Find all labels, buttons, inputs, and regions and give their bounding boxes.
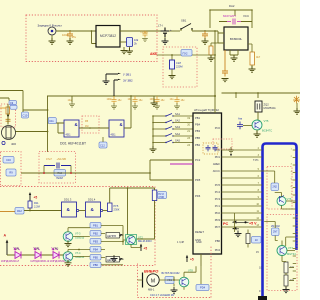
net arrow box TSEPRV2 <box>106 257 120 263</box>
mosfet label in box B <box>272 228 280 236</box>
corner connector block <box>258 296 267 300</box>
ground under R3 <box>249 66 256 72</box>
IR receiver dashed box A <box>267 167 292 210</box>
svg-text:C16: C16 <box>6 158 11 162</box>
switch SA4 <box>152 135 154 137</box>
svg-text:A: A <box>4 234 7 238</box>
svg-text:PC3: PC3 <box>215 197 221 201</box>
svg-text:PB1: PB1 <box>93 223 98 227</box>
capacitor C16 label <box>3 157 14 164</box>
reset pull circuit <box>234 213 236 232</box>
wire battery to switch <box>169 30 180 32</box>
second arrow <box>233 228 240 231</box>
svg-text:SA3: SA3 <box>175 125 180 129</box>
svg-text:VT7: VT7 <box>288 246 293 250</box>
svg-text:SB1: SB1 <box>181 19 187 23</box>
svg-text:C10: C10 <box>23 113 28 117</box>
svg-text:У ЗВ1: У ЗВ1 <box>123 73 131 77</box>
transistor VT6 <box>277 197 286 206</box>
capacitor C15 <box>213 145 218 151</box>
svg-text:+5: +5 <box>34 195 38 199</box>
+5 net arrow <box>29 195 31 202</box>
svg-text:+5 V: +5 V <box>249 222 257 226</box>
svg-text:ЦЕПРВ: ЦЕПРВ <box>107 234 116 238</box>
svg-text:4k7: 4k7 <box>256 55 261 59</box>
svg-text:47u7: 47u7 <box>46 157 52 161</box>
wire switch to VCC node <box>192 30 218 32</box>
left filter dashed box <box>1 152 22 186</box>
ground under jack <box>49 38 56 44</box>
svg-text:DA2: DA2 <box>229 4 235 8</box>
IC DA2 module box <box>224 27 248 50</box>
svg-text:PD1: PD1 <box>215 155 221 159</box>
svg-text:PD4: PD4 <box>215 248 221 252</box>
LED HL3 <box>53 252 59 259</box>
capacitor C14 <box>206 145 211 151</box>
svg-text:2,2M: 2,2M <box>34 205 40 209</box>
ground under VT3 <box>67 241 69 242</box>
transistor VT3 <box>63 232 73 242</box>
svg-text:PB0: PB0 <box>93 263 98 267</box>
capacitor C10 coupling <box>22 112 29 118</box>
capacitor C9 label <box>9 101 17 105</box>
svg-text:230К: 230К <box>114 208 120 212</box>
gate1 input wires <box>58 123 64 133</box>
LED HL2 <box>35 252 41 259</box>
svg-text:ПУ2: ПУ2 <box>183 51 189 55</box>
svg-text:DD1.4: DD1.4 <box>88 198 96 202</box>
wires from net labels to riser <box>101 226 123 265</box>
svg-text:&: & <box>120 122 123 127</box>
VT3 wires <box>68 228 90 237</box>
svg-text:PB5: PB5 <box>93 255 98 259</box>
resistor R13 above <box>152 190 157 201</box>
svg-text:VT-4: VT-4 <box>75 251 81 255</box>
ground right edge <box>296 103 298 110</box>
svg-text:T1T1: T1T1 <box>253 159 259 162</box>
svg-text:1 3,4Р: 1 3,4Р <box>177 241 185 244</box>
svg-text:РУ5: РУ5 <box>114 204 119 208</box>
wire between gates <box>77 209 79 211</box>
svg-text:PD6: PD6 <box>195 194 201 198</box>
ground under vibro <box>171 287 178 293</box>
svg-text:+NA NB: +NA NB <box>57 157 67 161</box>
svg-text:ГМ3: ГМ3 <box>54 247 59 250</box>
AREF filter dashed box <box>213 139 232 149</box>
connector right-side pin stubs <box>293 150 296 279</box>
capacitor C8 in mic box <box>6 117 11 124</box>
svg-text:BLT3/5 MU0162: BLT3/5 MU0162 <box>162 272 181 275</box>
rail left drop to mic network <box>47 96 49 152</box>
svg-text:DD1 HEF4011BT: DD1 HEF4011BT <box>60 142 86 146</box>
ground under battery <box>164 37 166 41</box>
svg-text:10u: 10u <box>128 98 133 101</box>
svg-text:SA4: SA4 <box>175 132 180 136</box>
box B wiring <box>264 222 296 262</box>
svg-text:PB5: PB5 <box>195 136 201 140</box>
capacitor C11 coupling <box>23 110 58 123</box>
switch SA1 <box>152 115 154 117</box>
svg-text:КИПД40М30: КИПД40М30 <box>50 259 66 263</box>
svg-text:PB1: PB1 <box>195 116 201 120</box>
net arrow V ZV1 <box>106 74 118 79</box>
svg-text:ГМ1: ГМ1 <box>15 247 20 250</box>
ground under R2 <box>208 55 215 61</box>
transistor VT2 <box>126 235 137 245</box>
net label PB5 <box>90 255 101 261</box>
+5 arrow at VT2 <box>140 245 142 251</box>
svg-text:1К: 1К <box>255 238 258 242</box>
microphone BM1 <box>2 126 16 140</box>
svg-text:VT5: VT5 <box>264 119 269 123</box>
svg-text:+5: +5 <box>190 258 194 262</box>
svg-text:SA2: SA2 <box>175 119 180 123</box>
svg-text:ГМ2: ГМ2 <box>35 247 40 250</box>
net label PB2 <box>90 231 101 237</box>
svg-text:SA5: SA5 <box>175 139 180 143</box>
capacitor C19 under DA2 <box>222 50 228 77</box>
svg-text:AVCC: AVCC <box>213 169 220 173</box>
resistor R8 <box>284 275 288 286</box>
svg-text:PB4: PB4 <box>93 247 98 251</box>
regulator U1 MCP73812 <box>96 26 120 48</box>
net label PB4 <box>90 247 101 253</box>
connector pin numbers right <box>291 148 293 203</box>
svg-text:C11: C11 <box>49 119 54 123</box>
ground above vibro box <box>113 255 115 257</box>
capacitor C2 at VCC <box>202 31 208 39</box>
svg-text:SS9015: SS9015 <box>75 255 85 259</box>
svg-text:MCP73812: MCP73812 <box>100 34 116 38</box>
svg-text:КИПД40М30-Л: КИПД40М30-Л <box>1 259 19 263</box>
transistor VT5 <box>257 112 259 120</box>
capacitor C20 in battery box <box>171 55 173 60</box>
svg-text:R11: R11 <box>34 201 39 205</box>
magenta AREF trace <box>170 163 193 165</box>
ground under VT4 <box>67 261 69 262</box>
flyback diode label <box>165 277 174 284</box>
svg-text:PB6: PB6 <box>215 239 221 243</box>
connector XS1 blue frame <box>263 144 297 298</box>
box A wires <box>262 171 297 209</box>
transistor Q1 prog pin device <box>120 41 128 43</box>
transistor VT7 <box>277 246 287 256</box>
svg-text:PC4: PC4 <box>215 190 221 194</box>
svg-text:BK8000L: BK8000L <box>230 37 243 41</box>
svg-text:PC0: PC0 <box>215 126 221 130</box>
mic input dashed box <box>1 104 16 127</box>
svg-text:R9: R9 <box>9 171 13 175</box>
ground drop above switch bus <box>153 96 155 103</box>
vibro wires <box>138 266 197 290</box>
driver dashed box B <box>267 215 297 291</box>
svg-text:+5: +5 <box>144 247 148 251</box>
svg-text:PB3: PB3 <box>195 129 201 133</box>
svg-text:PD2: PD2 <box>215 211 221 215</box>
wires R7 R8 <box>282 262 294 289</box>
svg-text:220М: 220М <box>176 65 183 69</box>
resistor R14 <box>108 203 113 212</box>
svg-text:4011: 4011 <box>66 134 72 137</box>
svg-text:C12: C12 <box>100 144 105 148</box>
svg-text:PB2: PB2 <box>93 231 98 235</box>
svg-text:PD3: PD3 <box>215 218 221 222</box>
wire gate DD1.4 output <box>101 209 103 211</box>
wires mic coupling <box>8 104 48 132</box>
RC dashed box <box>39 152 76 184</box>
ground under Q1 <box>129 47 131 52</box>
switch SA3 <box>152 128 154 130</box>
wire akb row <box>157 54 215 56</box>
svg-text:10k: 10k <box>134 38 139 42</box>
svg-text:MCP120T: MCP120T <box>223 14 236 18</box>
AVCC filter orange dashed box <box>203 143 218 154</box>
wire from left edge row2 <box>0 98 9 101</box>
transistor VT8 <box>179 277 189 287</box>
gate DD1.2 <box>109 120 124 137</box>
input net label R12 <box>0 211 15 213</box>
svg-text:7E3M: 7E3M <box>56 176 63 180</box>
main audio wire through <box>21 172 150 174</box>
net stub down to main rail <box>214 31 216 96</box>
svg-text:VT-3: VT-3 <box>75 232 81 236</box>
wire regulator output to battery <box>120 30 165 32</box>
charger section dashed enclosure <box>26 15 157 62</box>
svg-text:ВИБРО: ВИБРО <box>144 269 159 274</box>
svg-text:2N2: 2N2 <box>273 186 278 189</box>
switch SA5 <box>152 142 154 144</box>
wire VT2 to net labels riser <box>123 239 126 241</box>
ground near AVCC <box>228 147 234 153</box>
MCU bottom pin riser <box>200 254 202 266</box>
svg-text:С2Л: С2Л <box>176 61 181 65</box>
partition dashed line horizontal lower <box>0 265 155 267</box>
vibro dashed box <box>138 245 212 298</box>
ground under C1 <box>67 38 74 44</box>
switch bus vertical <box>152 116 154 149</box>
main supply rail <box>47 95 215 97</box>
svg-text:2N7002: 2N7002 <box>271 225 280 228</box>
resistor R2 left <box>209 46 213 55</box>
resistor R9 <box>6 169 16 176</box>
svg-text:R12: R12 <box>17 209 22 213</box>
feedback dashed box R5 region <box>82 116 99 133</box>
MCU left pin wires row2 <box>150 160 193 173</box>
MCU right pin wires to bus <box>222 149 263 151</box>
MCU vcc top pin <box>214 96 216 113</box>
svg-text:С10 4,7 х16ШАФ МУ: С10 4,7 х16ШАФ МУ <box>150 293 175 297</box>
svg-text:ЗУ ЗВ2: ЗУ ЗВ2 <box>123 79 133 83</box>
wire to gate DD1.3 <box>24 210 62 212</box>
orange input stub <box>0 107 6 109</box>
svg-text:КИПД40М30-Ж: КИПД40М30-Ж <box>31 259 50 263</box>
resistor R6 label in box A <box>271 183 279 191</box>
resonator ZQ2 <box>255 101 262 112</box>
loop wires <box>44 166 71 174</box>
antenna star <box>293 96 300 103</box>
svg-text:&: & <box>75 122 78 127</box>
PC net arrows <box>233 221 246 224</box>
svg-text:LT-I: LT-I <box>158 24 163 28</box>
svg-text:PB4: PB4 <box>195 123 201 127</box>
ground at regulator pin <box>123 47 125 51</box>
net label PB1 <box>90 223 101 229</box>
resistor R4 in mic box <box>6 107 10 114</box>
svg-text:МЕ-М-3003: МЕ-М-3003 <box>138 239 152 243</box>
svg-text:470R: 470R <box>158 196 164 199</box>
transistor VT4 <box>63 252 73 262</box>
gate DD1.1 <box>64 120 79 137</box>
svg-text:PC1: PC1 <box>215 204 221 208</box>
svg-text:BC847C: BC847C <box>262 129 272 133</box>
svg-text:PD7: PD7 <box>215 225 221 229</box>
net label PB3 <box>90 239 101 245</box>
svg-text:DD1.3: DD1.3 <box>64 198 72 202</box>
+5 arrow above vibro <box>186 256 188 262</box>
svg-text:VT2: VT2 <box>138 236 143 240</box>
resistor R11 <box>28 201 32 208</box>
resistor R7 <box>284 262 288 273</box>
ground under switch bus <box>150 146 157 152</box>
svg-text:АКБ: АКБ <box>150 52 158 56</box>
svg-text:PC5: PC5 <box>215 183 221 187</box>
svg-text:400: 400 <box>11 142 16 146</box>
net label PB0 <box>90 262 101 268</box>
svg-text:МВ-1: МВ-1 <box>148 288 155 292</box>
svg-text:2N7: 2N7 <box>273 231 278 234</box>
riser junctions <box>122 226 124 246</box>
svg-text:Зарядка 6 В вольт: Зарядка 6 В вольт <box>38 23 63 27</box>
wire mcu to crystal row <box>222 93 301 98</box>
svg-text:PC: PC <box>223 222 229 226</box>
svg-text:PD5: PD5 <box>195 178 201 182</box>
capacitor C12 under gate2 <box>99 142 107 148</box>
net label PU2 <box>181 50 192 57</box>
wire from left edge row1 <box>0 91 23 113</box>
wire jack to ground <box>51 35 53 41</box>
net arrow ZV OUT <box>114 80 118 96</box>
gate2 output riser to rail <box>124 96 131 128</box>
svg-text:PD4: PD4 <box>200 286 206 290</box>
net label PD4 bottom <box>196 285 209 291</box>
wire vcc row <box>219 10 252 28</box>
ground under VT5 <box>256 130 258 133</box>
resistor R15 <box>246 234 250 244</box>
svg-text:SA1: SA1 <box>175 112 180 116</box>
svg-text:GND: GND <box>196 241 202 244</box>
svg-text:RESET: RESET <box>195 230 204 234</box>
VT4 wires <box>64 250 91 257</box>
partition dashed vertical <box>154 187 156 266</box>
capacitor C3 (purple) <box>227 19 241 25</box>
LED chain wire <box>7 254 64 256</box>
net arrow box TSEPRV1 <box>106 233 120 239</box>
partition dashed line horizontal upper <box>0 186 155 188</box>
resistor R3 right <box>250 52 255 65</box>
LED HL1 <box>15 252 21 259</box>
svg-text:PC2: PC2 <box>195 158 201 162</box>
resistor R10 <box>54 170 66 177</box>
connector X1 power jack <box>48 27 56 35</box>
svg-text:10u: 10u <box>170 98 175 101</box>
svg-text:AREF: AREF <box>213 162 221 166</box>
svg-text:M: M <box>151 278 155 284</box>
wire top feed <box>210 10 252 28</box>
left pins of DA2 <box>218 31 224 43</box>
svg-text:4011: 4011 <box>111 134 117 137</box>
battery sense dashed box <box>163 47 197 87</box>
wire jack to regulator <box>56 30 96 32</box>
wires gate1 to gate2 <box>79 127 109 129</box>
svg-text:VCC: VCC <box>243 14 249 18</box>
svg-text:MGT34: MGT34 <box>287 252 296 256</box>
switch SA2 <box>152 122 154 124</box>
ground in box B <box>283 287 290 293</box>
motor M1 <box>142 273 144 288</box>
svg-text:PB2: PB2 <box>195 143 201 147</box>
capacitor C17 <box>44 163 71 169</box>
svg-text:MCM530x: MCM530x <box>264 106 277 110</box>
svg-text:35v: 35v <box>72 35 77 39</box>
bottom pins of DA2 <box>230 50 238 55</box>
svg-text:ZQ2: ZQ2 <box>264 103 270 107</box>
svg-text:PB3: PB3 <box>93 239 98 243</box>
